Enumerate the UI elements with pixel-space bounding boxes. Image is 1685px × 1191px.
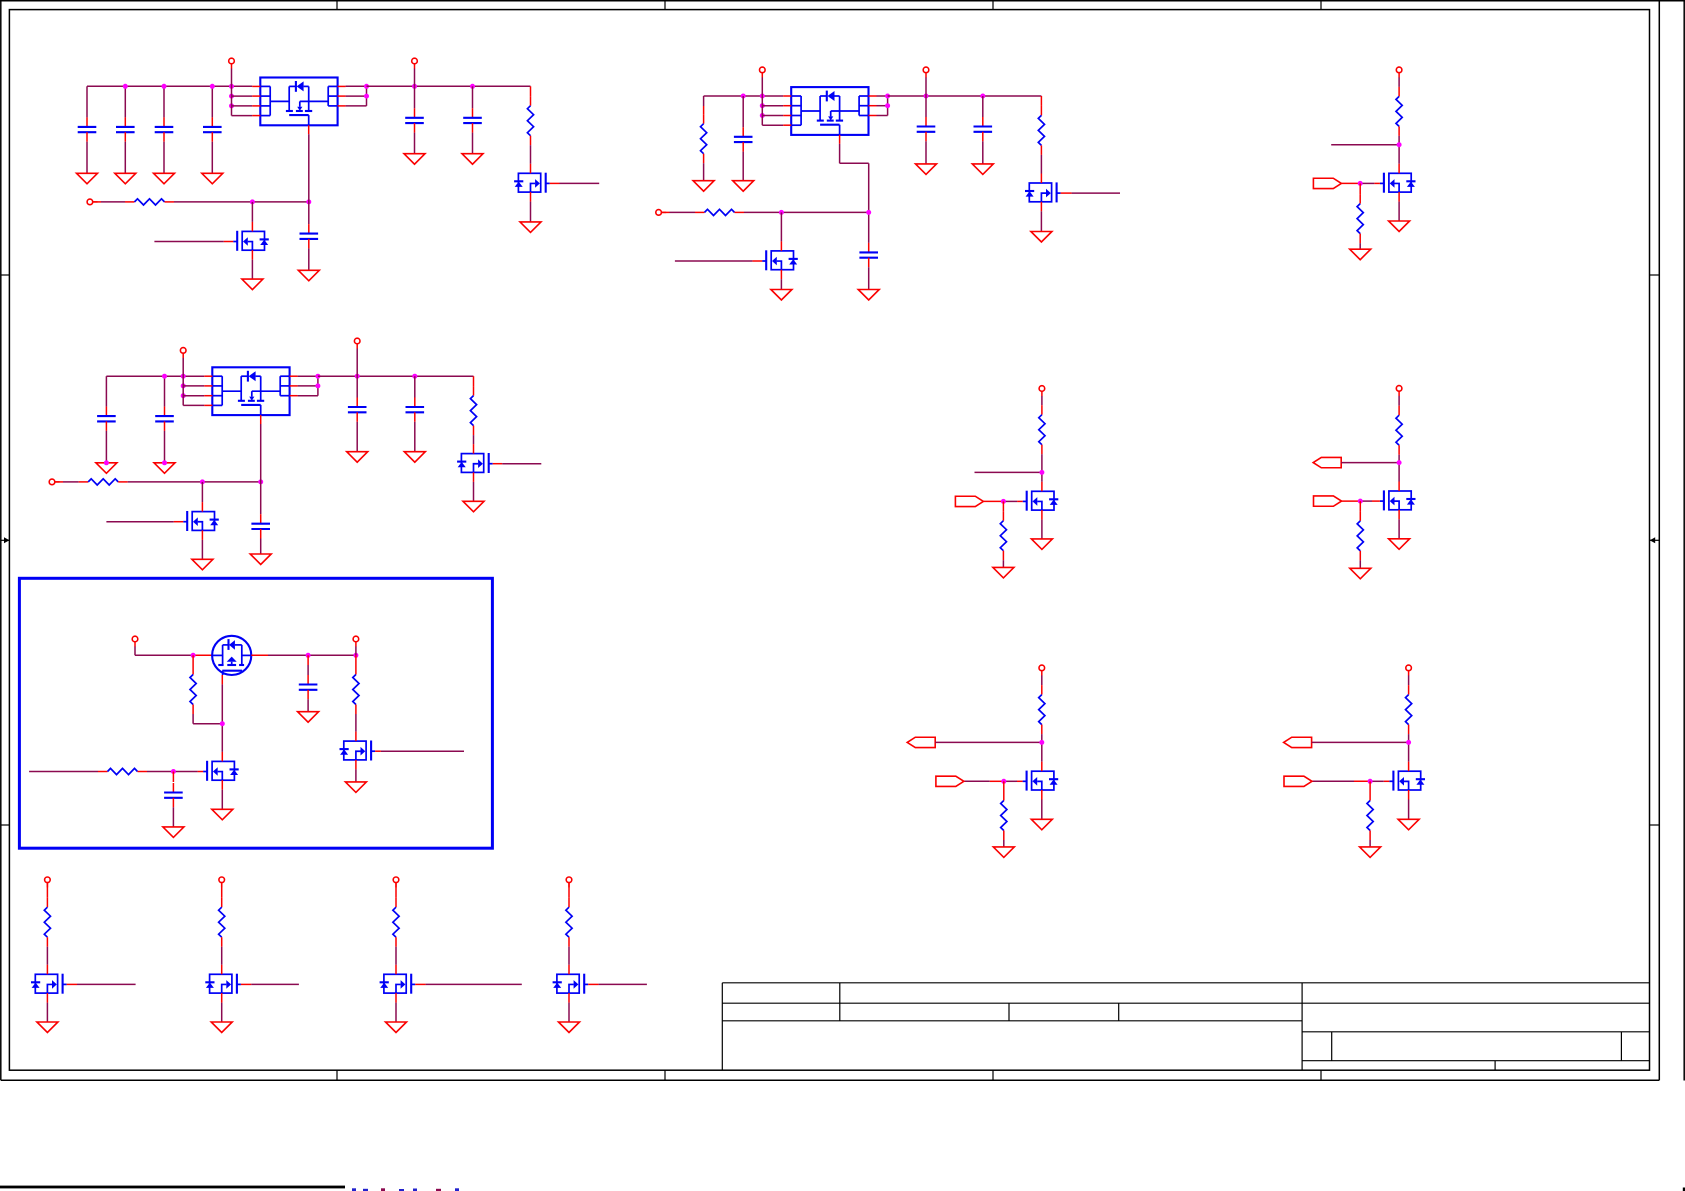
- port P8: [354, 338, 360, 348]
- junction dots tie C: [315, 374, 320, 389]
- transistor Q18: [553, 965, 589, 1003]
- resistor R16: [1357, 501, 1363, 568]
- resistor R18: [1001, 781, 1007, 847]
- port P5: [923, 67, 929, 77]
- wire port P1 drop: [232, 69, 253, 116]
- wire Q16 gate: [241, 983, 299, 985]
- wire P18 drop: [221, 882, 223, 897]
- capacitor C8: [734, 96, 753, 181]
- junction dot E drain: [1039, 470, 1044, 475]
- resistor R15: [1396, 406, 1402, 482]
- transistor Q14: [1389, 762, 1425, 800]
- port P19: [393, 877, 399, 887]
- wire P20 drop: [568, 882, 570, 897]
- input connector A8: [1284, 776, 1312, 786]
- wire P3 to R2: [93, 201, 126, 203]
- capacitor C14: [348, 376, 367, 452]
- resistor R8: [190, 655, 222, 723]
- transistor Q10: [1023, 482, 1059, 520]
- wire Q6 source: [473, 482, 475, 501]
- wire U1 pin5 down: [308, 134, 310, 224]
- junction dots tie B: [885, 94, 890, 109]
- capacitor C17: [164, 772, 183, 827]
- resistor R3: [701, 96, 707, 181]
- wire output bus C: [318, 375, 474, 377]
- junction dot Q13 gate: [1001, 779, 1006, 784]
- dual MOSFET package U3: [204, 367, 297, 424]
- ground: [520, 222, 541, 233]
- wire Q4 gate: [1061, 192, 1120, 194]
- wire A5 to drain: [935, 741, 1042, 743]
- resistor R1: [527, 86, 533, 164]
- wire G drain stub: [1331, 144, 1399, 146]
- ground: [77, 173, 98, 184]
- wire P11 drop: [355, 647, 357, 656]
- wire P15 drop: [1041, 675, 1043, 685]
- port P15: [1039, 665, 1045, 675]
- wire P6 to R5: [661, 211, 695, 213]
- wire Q8 gate: [147, 771, 203, 773]
- ground: [404, 154, 425, 165]
- junction dots tie A: [364, 84, 369, 99]
- wire port P8 drop: [356, 349, 358, 377]
- resistor R24: [566, 898, 572, 965]
- resistor R9: [98, 768, 147, 774]
- resistor R20: [1367, 781, 1373, 847]
- wire Q2 source: [530, 202, 532, 222]
- transistor Q12: [1380, 482, 1416, 520]
- resistor R5: [695, 209, 744, 215]
- ground: [1350, 249, 1371, 260]
- input connector A1: [955, 496, 983, 506]
- ground: [1398, 819, 1419, 830]
- wire P14 drop: [1398, 396, 1400, 406]
- transistor Q5: [183, 502, 219, 540]
- wire P13 drop: [1398, 77, 1400, 87]
- transistor Q8: [203, 752, 239, 790]
- ground: [115, 173, 136, 184]
- capacitor C16: [251, 514, 270, 554]
- ground: [916, 164, 937, 175]
- resistor R10: [353, 655, 359, 731]
- wire Q13 source: [1041, 800, 1043, 820]
- wire P19 drop: [395, 882, 397, 897]
- junction dots bus C: [162, 374, 186, 399]
- capacitor C15: [406, 376, 425, 452]
- junction dots output bus A: [412, 84, 475, 89]
- wire E drain stub: [975, 471, 1042, 473]
- frame zone ticks top: [337, 1, 1321, 10]
- wire Q7 output: [251, 654, 356, 656]
- wire Q11 source: [1398, 202, 1400, 221]
- ground: [1360, 847, 1381, 858]
- wire P17 drop: [46, 882, 48, 897]
- junction dot Q14 gate: [1368, 779, 1373, 784]
- junction dots D node: [191, 653, 359, 658]
- wire Q3 gate: [675, 260, 762, 262]
- wire P10 drop: [135, 647, 193, 656]
- resistor R11: [1039, 405, 1045, 482]
- wire Q9 source: [355, 769, 357, 782]
- ground: [462, 154, 483, 165]
- wire port P7 drop: [183, 358, 204, 406]
- ground: [242, 279, 263, 290]
- capacitor C11: [859, 243, 878, 290]
- port P7: [180, 348, 186, 358]
- junction dots output bus C: [355, 374, 418, 379]
- wire input bus A: [87, 85, 252, 87]
- ground: [386, 1022, 407, 1033]
- capacitor C3: [155, 86, 174, 173]
- ground: [211, 1022, 232, 1033]
- wire Q18 source: [568, 1003, 570, 1022]
- resistor R21: [44, 898, 50, 965]
- ground: [1350, 568, 1371, 579]
- wire Q6 gate: [493, 463, 542, 465]
- port P2: [412, 58, 418, 68]
- wire Q1 source: [251, 260, 253, 279]
- wire Q8 source: [221, 790, 223, 810]
- port P1: [229, 58, 235, 68]
- frame zone ticks left: [1, 275, 10, 825]
- wire Q5 gate: [106, 521, 183, 523]
- resistor R23: [393, 898, 399, 965]
- wire Q7 gate down: [221, 675, 223, 752]
- wire input bus C: [106, 375, 204, 377]
- wire A3 to drain: [1341, 462, 1399, 464]
- wire U3 outputs tie: [298, 376, 318, 396]
- port P10: [132, 636, 138, 646]
- wire U3 pin5 down: [260, 424, 262, 514]
- wire Q3 source: [780, 279, 782, 289]
- wire port P2 drop: [414, 69, 416, 87]
- junction dot gate D: [220, 721, 225, 726]
- ground: [1389, 539, 1410, 550]
- ground: [972, 164, 993, 175]
- wire Q10 source: [1041, 520, 1043, 539]
- input connector A2: [1313, 178, 1341, 188]
- resistor R12: [1000, 501, 1006, 567]
- ground: [202, 173, 223, 184]
- wire A7 to drain: [1312, 741, 1409, 743]
- frame zone ticks bottom: [337, 1070, 1321, 1080]
- ground: [347, 452, 368, 463]
- resistor R14: [1357, 183, 1363, 249]
- port P16: [1406, 665, 1412, 675]
- wire U2 outputs tie: [877, 96, 888, 116]
- wire port P5 drop: [925, 77, 927, 96]
- transistor Q11: [1380, 164, 1416, 202]
- wire Q10 gate: [983, 500, 1022, 502]
- ground: [1389, 221, 1410, 232]
- ground: [1031, 539, 1052, 550]
- wire Q17 source: [395, 1003, 397, 1022]
- wire feedback node A: [174, 201, 309, 203]
- wire Q15 source: [46, 1003, 48, 1022]
- junction dot Q10 gate: [1001, 499, 1006, 504]
- junction dots lower B: [779, 210, 871, 215]
- wire to Q3 drain: [780, 212, 782, 241]
- next page top edge fragment: [0, 1186, 1685, 1191]
- junction dot C13 gnd: [162, 460, 167, 465]
- resistor R22: [219, 898, 225, 965]
- ground: [463, 501, 484, 512]
- transistor Q6: [457, 444, 493, 482]
- wire Q12 gate: [1342, 500, 1380, 502]
- wire to Q1 drain: [251, 202, 253, 222]
- ground: [192, 559, 213, 570]
- wire Q2 gate: [550, 182, 600, 184]
- wire Q14 gate: [1312, 780, 1389, 782]
- capacitor C7: [300, 224, 319, 270]
- ground: [1031, 819, 1052, 830]
- wire Q5 source: [201, 540, 203, 559]
- frame mid arrow left: [1, 537, 10, 543]
- junction dot H drain: [1039, 740, 1044, 745]
- output connector A5: [907, 737, 935, 747]
- transistor Q1: [233, 222, 269, 260]
- port P9: [49, 479, 59, 485]
- ground: [771, 290, 792, 301]
- port P18: [219, 877, 225, 887]
- ground: [993, 567, 1014, 578]
- wire output bus B: [888, 95, 1042, 97]
- dual MOSFET package U1: [252, 78, 345, 135]
- ground: [96, 463, 117, 474]
- port P6: [656, 210, 666, 216]
- junction dots lower C: [200, 479, 263, 484]
- ground: [693, 181, 714, 192]
- junction dots output bus B: [924, 94, 986, 99]
- capacitor C2: [116, 86, 135, 173]
- input connector A6: [936, 776, 964, 786]
- frame zone ticks right: [1650, 275, 1660, 825]
- ground: [298, 712, 319, 723]
- port P17: [45, 877, 51, 887]
- ground: [733, 181, 754, 192]
- wire P16 drop: [1408, 675, 1410, 685]
- frame mid arrow right: [1650, 537, 1660, 543]
- ground: [993, 847, 1014, 858]
- resistor R2: [125, 199, 174, 205]
- junction dot G drain: [1397, 142, 1402, 147]
- ground: [154, 173, 175, 184]
- capacitor C4: [203, 86, 222, 173]
- junction dot F drain: [1397, 460, 1402, 465]
- ground: [858, 290, 879, 301]
- ground: [250, 554, 271, 565]
- wire P9 to R7: [55, 481, 79, 483]
- wire Q13 gate: [964, 780, 1023, 782]
- highlight box D: [19, 578, 492, 848]
- junction dot Q11 gate: [1358, 181, 1363, 186]
- resistor R7: [79, 479, 128, 485]
- power MOSFET Q7: [212, 636, 251, 675]
- transistor Q17: [380, 965, 416, 1003]
- junction dot C12 gnd: [104, 460, 109, 465]
- port P13: [1396, 67, 1402, 77]
- wire Q4 source: [1040, 211, 1042, 231]
- wire P12 drop: [1041, 396, 1043, 405]
- transistor Q4: [1025, 174, 1061, 212]
- transistor Q2: [514, 164, 550, 202]
- wire feedback node B: [744, 211, 869, 213]
- ground: [212, 809, 233, 820]
- wire U2 pin5 path: [840, 144, 869, 243]
- wire Q16 source: [221, 1003, 223, 1022]
- ground: [154, 463, 175, 474]
- wire U1 outputs tie: [346, 86, 367, 106]
- junction dot Q8 gate: [171, 769, 176, 774]
- ground: [559, 1022, 580, 1033]
- port P14: [1396, 386, 1402, 396]
- capacitor C6: [463, 86, 482, 153]
- wire gate input D: [29, 771, 98, 773]
- port P3: [87, 199, 97, 205]
- output connector A3: [1313, 457, 1341, 467]
- junction dots bus A: [123, 84, 234, 109]
- wire Q15 gate: [67, 983, 136, 985]
- junction dots lower A: [250, 199, 311, 204]
- transistor Q15: [31, 965, 67, 1003]
- port P4: [760, 67, 766, 77]
- ground: [163, 827, 184, 838]
- ground: [298, 270, 319, 281]
- transistor Q13: [1023, 762, 1059, 800]
- wire port P4 drop: [762, 77, 783, 125]
- resistor R17: [1039, 685, 1045, 762]
- transistor Q3: [762, 241, 798, 279]
- adjacent sheet edge line right: [1683, 0, 1685, 1081]
- dual MOSFET package U2: [783, 87, 876, 144]
- capacitor C18: [299, 655, 318, 711]
- wire Q1 gate: [154, 241, 233, 243]
- input connector A4: [1314, 496, 1342, 506]
- port P12: [1039, 386, 1045, 396]
- wire Q18 gate: [588, 983, 647, 985]
- ground: [404, 452, 425, 463]
- resistor R19: [1406, 685, 1412, 762]
- junction dot Q12 gate: [1358, 499, 1363, 504]
- transistor Q16: [205, 965, 241, 1003]
- wire Q12 source: [1398, 519, 1400, 539]
- wire output bus A: [367, 85, 531, 87]
- title block: [722, 983, 1649, 1070]
- junction dot I drain: [1406, 740, 1411, 745]
- ground: [37, 1022, 58, 1033]
- port P11: [353, 636, 359, 646]
- transistor Q9: [340, 732, 376, 770]
- wire Q9 gate: [375, 750, 464, 752]
- resistor R6: [470, 376, 476, 444]
- capacitor C10: [974, 96, 993, 164]
- capacitor C5: [405, 86, 424, 153]
- resistor R13: [1396, 87, 1402, 164]
- wire into Q7: [193, 654, 212, 656]
- junction dots bus B: [741, 94, 765, 119]
- wire Q17 gate: [415, 983, 522, 985]
- capacitor C9: [917, 96, 936, 164]
- resistor R4: [1038, 96, 1044, 174]
- port P20: [566, 877, 572, 887]
- ground: [345, 782, 366, 793]
- capacitor C12: [97, 376, 116, 463]
- wire feedback node C: [128, 481, 261, 483]
- capacitor C1: [78, 86, 97, 173]
- wire input bus B: [704, 95, 784, 97]
- wire to Q5 drain: [201, 482, 203, 502]
- capacitor C13: [155, 376, 174, 463]
- ground: [1031, 232, 1052, 243]
- wire Q11 gate: [1341, 182, 1380, 184]
- output connector A7: [1284, 737, 1312, 747]
- wire Q14 source: [1408, 800, 1410, 820]
